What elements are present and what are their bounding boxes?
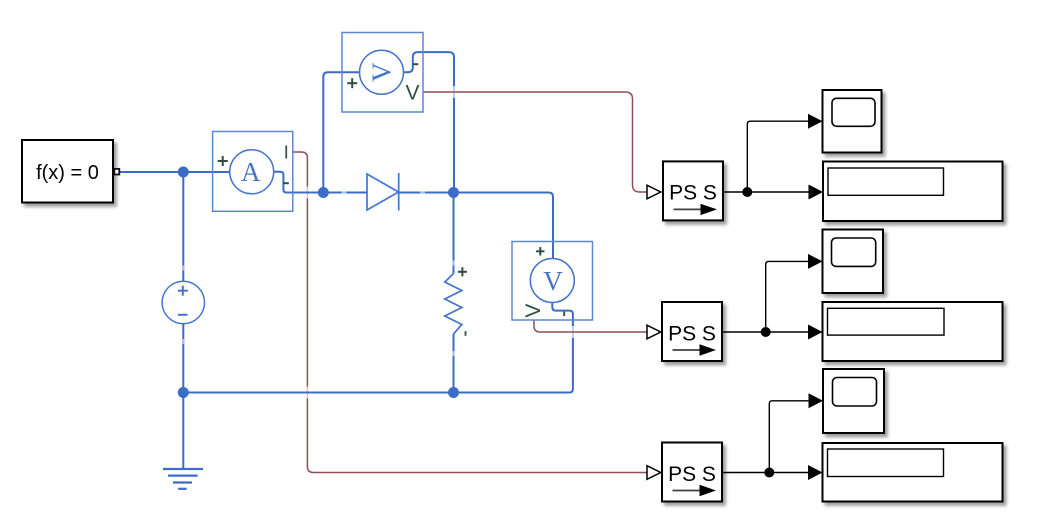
svg-text:f(x) = 0: f(x) = 0 [36,162,99,184]
svg-text:PS S: PS S [668,322,716,345]
svg-text:I: I [284,143,289,163]
svg-text:PS S: PS S [669,182,717,205]
svg-text:V: V [522,304,545,318]
svg-text:V: V [405,82,419,105]
svg-text:V: V [543,266,563,296]
svg-text:V: V [367,62,397,82]
svg-text:PS S: PS S [668,463,716,486]
svg-text:A: A [241,157,261,187]
